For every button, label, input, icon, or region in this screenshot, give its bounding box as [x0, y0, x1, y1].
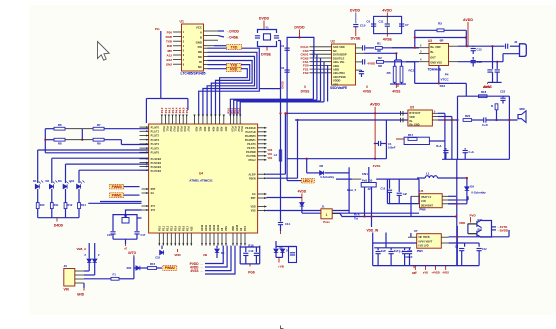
- svg-text:4VTO: 4VTO: [128, 251, 137, 255]
- svg-text:P4: P4: [445, 73, 449, 77]
- svg-text:ExP: ExP: [381, 250, 386, 253]
- wire audio mid line: [438, 119, 458, 121]
- svg-text:P0.2: P0.2: [169, 127, 172, 133]
- capacitor C27: [398, 179, 400, 192]
- svg-text:AIN-/TESE: AIN-/TESE: [333, 75, 346, 79]
- U2 left bus 5th wire: [327, 65, 329, 101]
- zener diode Z2: [94, 243, 96, 259]
- svg-text:VCC: VCC: [196, 26, 203, 30]
- wire rows from U4 left to LED drops: [38, 149, 149, 151]
- capacitor C6: [371, 24, 376, 26]
- svg-text:P3.1: P3.1: [234, 127, 237, 133]
- svg-text:P3.5/T1: P3.5/T1: [247, 147, 256, 150]
- svg-text:Pxxx: Pxxx: [323, 220, 330, 224]
- svg-text:P2.0: P2.0: [244, 225, 247, 231]
- svg-text:Y1: Y1: [265, 26, 269, 30]
- svg-text:NC: NC: [333, 49, 337, 53]
- svg-text:PWM0: PWM0: [112, 185, 122, 189]
- net label PWM1 yellow: [110, 193, 124, 198]
- LED D1: [35, 184, 39, 188]
- svg-text:4VDD: 4VDD: [367, 61, 376, 65]
- svg-text:P0.1: P0.1: [165, 127, 168, 133]
- svg-text:U6: U6: [420, 189, 424, 193]
- capacitor C24 bottom left: [445, 148, 447, 149]
- net label PWM0 yellow: [110, 184, 124, 189]
- svg-text:P2.1: P2.1: [162, 225, 165, 231]
- svg-text:VIN: VIN: [64, 288, 70, 292]
- U5 left pin tick marks: [401, 111, 404, 122]
- svg-text:PG6: PG6: [248, 270, 255, 274]
- svg-text:R20: R20: [465, 114, 471, 118]
- svg-text:P1.0/T0: P1.0/T0: [151, 126, 160, 129]
- svg-text:R6: R6: [58, 123, 62, 127]
- wire 4VDD cap loop: [374, 16, 402, 33]
- U3 left pins: [419, 47, 429, 49]
- diode D5 below U4: [216, 246, 218, 249]
- svg-text:DVDD: DVDD: [350, 9, 361, 13]
- svg-text:P1.2/T2: P1.2/T2: [151, 135, 160, 138]
- svg-text:VDD_IN: VDD_IN: [367, 228, 379, 232]
- svg-text:AD5: AD5: [215, 127, 218, 132]
- diode D10: [280, 249, 284, 253]
- U4 top pin stubs group3: [229, 115, 231, 125]
- svg-text:U7: U7: [414, 229, 418, 233]
- U4 top pin stubs group2: [194, 115, 196, 125]
- svg-text:A15: A15: [190, 226, 193, 231]
- capacitor C25 bottom: [464, 148, 466, 149]
- svg-text:+4VDD: +4VDD: [431, 270, 440, 274]
- svg-text:FS2: FS2: [303, 71, 309, 75]
- svg-text:D2: D2: [46, 179, 50, 183]
- capacitor C28: [377, 248, 379, 251]
- wire DVDD loop: [287, 37, 314, 180]
- svg-text:R+/L: R+/L: [436, 144, 442, 148]
- svg-text:DVSS: DVSS: [281, 81, 285, 88]
- svg-text:AD0: AD0: [195, 127, 198, 132]
- svg-text:4VSS: 4VSS: [442, 270, 449, 274]
- svg-text:VVVV VBVT: VVVV VBVT: [418, 240, 433, 243]
- wire R17 loop to audio verticals: [429, 140, 445, 142]
- U5 right pin wires: [432, 112, 438, 114]
- svg-text:P3.1/TxD: P3.1/TxD: [245, 131, 255, 134]
- svg-text:CN1: CN1: [362, 172, 368, 176]
- svg-text:C12: C12: [477, 48, 483, 52]
- svg-text:P4.4: P4.4: [174, 107, 178, 113]
- svg-text:P1.5/T5: P1.5/T5: [151, 147, 160, 150]
- svg-text:DVSS: DVSS: [301, 89, 310, 93]
- power label DVSS below Y1: [266, 47, 268, 51]
- crystal Y1 symbol: [264, 34, 271, 40]
- capacitor C19: [245, 247, 247, 252]
- wire J3 to right: [84, 278, 111, 280]
- svg-text:AD3: AD3: [207, 127, 210, 132]
- connector J2 plug body: [520, 44, 527, 57]
- svg-text:VIF YDFB: VIF YDFB: [418, 236, 430, 239]
- capacitor C15: [495, 70, 500, 72]
- resistor R7: [93, 127, 104, 130]
- U7 right pins: [441, 236, 448, 238]
- svg-text:B/C: B/C: [478, 228, 483, 232]
- svg-text:VDDD: VDDD: [333, 79, 340, 83]
- svg-text:LVD: LVD: [421, 200, 426, 203]
- svg-text:C1: C1: [388, 142, 392, 146]
- resistor R11: [50, 203, 53, 209]
- svg-text:E+P: E+P: [399, 251, 404, 254]
- svg-text:AD15: AD15: [236, 224, 239, 231]
- svg-text:VSS: VSS: [225, 226, 228, 231]
- crystal Y2 network: [113, 215, 126, 231]
- svg-text:B12: B12: [166, 58, 172, 62]
- svg-text:P3.7/RD: P3.7/RD: [247, 155, 256, 158]
- svg-text:100nF: 100nF: [388, 146, 396, 150]
- svg-text:C18: C18: [155, 256, 160, 260]
- wire Q1 base: [468, 223, 477, 225]
- resistor R18 top: [479, 95, 488, 98]
- wire Y2 caps to common: [112, 234, 114, 239]
- svg-text:100nF: 100nF: [405, 256, 413, 259]
- svg-text:Pin: Pin: [155, 27, 160, 31]
- capacitor CY2: [274, 36, 279, 38]
- IC U7 regulator: [417, 234, 442, 249]
- svg-text:SSD/VadFE: SSD/VadFE: [330, 86, 347, 90]
- svg-text:VB8_A: VB8_A: [77, 247, 88, 251]
- power label 4VTO below Y2: [125, 244, 127, 246]
- wire diode bottom to U6 row: [448, 203, 467, 205]
- svg-text:C6: C6: [366, 20, 370, 24]
- transistor Q2: [477, 230, 482, 238]
- svg-text:C15: C15: [380, 187, 385, 191]
- resistor R15 with PWM2 label: [140, 267, 148, 269]
- resistor R1 0R: [375, 47, 382, 50]
- IC U4 microcontroller AT89C51ED2: [149, 124, 258, 233]
- svg-text:C19: C19: [249, 249, 254, 253]
- wire horizontal lower crossing: [287, 158, 387, 160]
- IC U2 ADC: [332, 44, 356, 85]
- svg-text:R8: R8: [58, 142, 62, 146]
- svg-text:IN-: IN-: [430, 50, 434, 54]
- svg-text:J3: J3: [64, 264, 68, 268]
- wire left bus verticals: [44, 129, 46, 153]
- wire PWM labels to U4: [124, 186, 140, 188]
- net label PWM2 yellow: [163, 266, 177, 271]
- svg-text:R3: R3: [438, 22, 442, 26]
- svg-text:A12: A12: [166, 53, 172, 57]
- svg-text:XTAL2: XTAL2: [248, 159, 256, 162]
- svg-text:U3: U3: [428, 39, 432, 43]
- svg-text:J2: J2: [514, 40, 518, 44]
- svg-text:VDD: VDD: [251, 206, 256, 209]
- svg-text:MIC: MIC: [520, 107, 526, 111]
- power label D4DD below LED rail: [56, 218, 58, 222]
- svg-text:4VDD: 4VDD: [298, 190, 307, 194]
- svg-text:AD12: AD12: [209, 224, 212, 231]
- svg-text:xVB: xVB: [423, 270, 428, 274]
- resistor R20 mid: [463, 119, 472, 122]
- IC U6 regulator: [420, 194, 443, 208]
- svg-text:P0.4: P0.4: [176, 127, 179, 133]
- svg-text:GND VSS: GND VSS: [430, 61, 442, 65]
- LED D3: [63, 184, 67, 188]
- wire audio network loop: [457, 96, 459, 159]
- wire Y2 to U4 XTAL pins: [137, 217, 142, 219]
- wire U4 right pin elbow 2: [297, 120, 299, 178]
- svg-text:R24: R24: [127, 266, 132, 270]
- svg-text:OUT: OUT: [430, 55, 436, 59]
- svg-text:R13: R13: [440, 84, 446, 88]
- capacitor C29: [390, 248, 392, 251]
- wire J1 to right rail: [332, 213, 340, 215]
- svg-text:P3.0/RxD: P3.0/RxD: [245, 127, 256, 130]
- svg-text:P1.3/T3: P1.3/T3: [151, 139, 160, 142]
- svg-text:P4.0: P4.0: [160, 107, 164, 113]
- svg-text:AD1: AD1: [199, 127, 202, 132]
- svg-text:EA: EA: [252, 193, 256, 196]
- diode D6 pair and cap loop right: [275, 241, 277, 248]
- svg-text:PSEN: PSEN: [249, 177, 256, 180]
- capacitor C26: [389, 179, 391, 189]
- svg-text:4VSS: 4VSS: [190, 269, 198, 273]
- wire LED_2 to left bus: [287, 180, 301, 182]
- svg-text:C13: C13: [477, 60, 483, 64]
- svg-text:485: 485: [167, 49, 172, 53]
- svg-text:P3.4/T0: P3.4/T0: [247, 143, 256, 146]
- wire loop with caps PG6: [240, 246, 260, 247]
- wire CN1 long vertical: [348, 167, 350, 213]
- wire rows into U4 lower-left: [100, 201, 142, 203]
- svg-text:P1.6/T6: P1.6/T6: [151, 152, 160, 155]
- svg-text:LTC485/SP3485: LTC485/SP3485: [181, 72, 206, 76]
- svg-text:0-Schottky: 0-Schottky: [471, 191, 486, 195]
- J3 pin wires: [75, 270, 84, 272]
- mouse cursor: [98, 42, 110, 61]
- svg-text:XT2: XT2: [151, 209, 156, 212]
- svg-text:R12: R12: [68, 203, 73, 207]
- resistor R10: [36, 203, 39, 209]
- svg-text:P4.1: P4.1: [164, 107, 168, 113]
- capacitor C35 loop: [289, 247, 297, 263]
- svg-text:RC1: RC1: [409, 69, 415, 73]
- inductor L2 on left rail: [279, 150, 281, 161]
- svg-text:DATA/SDIP: DATA/SDIP: [333, 53, 347, 57]
- svg-text:R14: R14: [81, 203, 86, 207]
- svg-text:P2.6: P2.6: [182, 225, 185, 231]
- wire LED common rail: [37, 209, 39, 218]
- svg-text:U5: U5: [410, 106, 414, 110]
- LED D4: [77, 184, 81, 188]
- wire U4 right pin elbow 1: [284, 113, 286, 174]
- capacitor C32 right of U7: [459, 249, 464, 251]
- svg-text:L2: L2: [274, 153, 278, 157]
- U2 left vertical wire bus to U4 top pins: [312, 51, 314, 100]
- U2 right cap stub: [356, 69, 362, 71]
- wire R2 output drop to audio rail: [414, 62, 416, 84]
- wire stub left edge: [278, 40, 281, 42]
- svg-text:+V: +V: [414, 270, 418, 274]
- wire bottom power rail: [411, 265, 479, 267]
- wire rail x456 vertical: [456, 159, 458, 265]
- svg-text:P2.4: P2.4: [174, 225, 177, 231]
- svg-text:C17: C17: [141, 233, 146, 237]
- svg-text:R18: R18: [481, 90, 487, 94]
- svg-text:P2.7: P2.7: [186, 225, 189, 231]
- wire caps to AVSS below connector: [492, 46, 494, 69]
- resistor R8: [45, 139, 54, 141]
- wire U4 right pin to 4VDD zener node: [267, 197, 302, 199]
- svg-text:P1.1/T1: P1.1/T1: [151, 131, 160, 134]
- power label AVSS: [487, 82, 489, 84]
- svg-text:AD4: AD4: [211, 127, 214, 132]
- svg-text:R2: R2: [378, 56, 382, 60]
- svg-text:4VSS: 4VSS: [363, 89, 371, 93]
- capacitor C12 on AVDD rail: [472, 45, 474, 48]
- svg-text:C0.1: C0.1: [285, 222, 291, 226]
- svg-text:D6: D6: [320, 164, 324, 168]
- power label DVSS below U2 right: [395, 83, 397, 88]
- U4 right pin stubs: [258, 127, 267, 129]
- svg-text:P0.5: P0.5: [180, 127, 183, 133]
- wire zener row to loop: [302, 212, 419, 214]
- svg-text:LVD LVD: LVD LVD: [418, 245, 429, 248]
- svg-text:B/C: B/C: [478, 218, 483, 222]
- net label LED_2 yellow: [301, 179, 314, 183]
- zener diode Z1: [88, 243, 90, 259]
- wire bus row into U4: [45, 152, 148, 154]
- capacitor C31 left of U7: [409, 248, 411, 251]
- power label +VB below diodes: [278, 257, 280, 262]
- capacitor C22 top right: [502, 96, 504, 97]
- svg-text:P4.6: P4.6: [182, 107, 186, 113]
- power rail stubs and labels: [414, 266, 416, 270]
- svg-text:P3.3/INT1: P3.3/INT1: [245, 139, 256, 142]
- diode D7 schottky horizontal: [306, 158, 308, 160]
- wire into U3 from left: [392, 47, 419, 49]
- svg-text:C+/L: C+/L: [469, 150, 475, 154]
- capacitor C8: [285, 70, 290, 72]
- svg-text:P0.6: P0.6: [183, 127, 186, 133]
- svg-text:VD1: VD1: [268, 153, 273, 156]
- U1 right pin wires: [204, 30, 219, 32]
- artifact mark bottom centre: [281, 326, 284, 329]
- crystal Y1 network box: [258, 30, 277, 34]
- svg-text:1: 1: [326, 213, 328, 217]
- capacitor C11: [385, 24, 390, 26]
- svg-text:AD13: AD13: [213, 224, 216, 231]
- wire transistor outputs loop: [482, 221, 492, 238]
- svg-text:IN+ GND: IN+ GND: [409, 124, 419, 127]
- svg-text:GN2: GN2: [166, 63, 173, 67]
- svg-text:Bluz_5: Bluz_5: [347, 188, 356, 192]
- svg-text:C16: C16: [107, 233, 112, 237]
- wire from U1 area down-left: [160, 31, 162, 99]
- wire corner into left bus vertical: [259, 88, 280, 90]
- svg-text:R: R: [491, 104, 493, 108]
- svg-text:P1.5/CEX: P1.5/CEX: [151, 162, 162, 165]
- svg-text:DVSE: DVSE: [351, 37, 361, 41]
- svg-text:P3.2/INT0: P3.2/INT0: [245, 135, 256, 138]
- svg-text:P2.0: P2.0: [158, 225, 161, 231]
- wire bus from U1 right pins staircase to U4 top pins: [204, 47, 208, 49]
- power label PG6: [249, 264, 251, 267]
- LED D2: [49, 184, 53, 188]
- svg-text:XT1: XT1: [151, 205, 156, 208]
- svg-text:TXD: TXD: [166, 40, 173, 44]
- capacitor C10: [355, 13, 357, 24]
- svg-text:GND: GND: [196, 40, 202, 44]
- resistor R12: [64, 203, 67, 209]
- U2 right pin wire long: [356, 52, 365, 54]
- U4 left pin stubs lower: [140, 158, 149, 160]
- wire jog row1 to row2: [81, 129, 83, 140]
- svg-text:C7: C7: [405, 23, 409, 27]
- svg-text:B: B: [200, 35, 202, 39]
- net label DVDD right of U1: [218, 30, 224, 32]
- wire VDD_IN feed to caps: [385, 233, 387, 248]
- svg-text:RE: RE: [198, 50, 202, 54]
- svg-text:P2.2: P2.2: [166, 225, 169, 231]
- power label GND below J3: [83, 283, 85, 288]
- svg-text:PWM1: PWM1: [112, 193, 122, 197]
- svg-text:P1.7/CEX: P1.7/CEX: [151, 170, 162, 173]
- svg-text:R16: R16: [248, 244, 254, 248]
- svg-text:AIN2: AIN2: [333, 68, 339, 72]
- svg-text:U2: U2: [331, 40, 335, 44]
- resistor R6: [45, 128, 54, 130]
- svg-text:AVDD: AVDD: [463, 18, 473, 22]
- svg-text:RXD: RXD: [166, 35, 173, 39]
- svg-text:PWM2: PWM2: [165, 266, 175, 270]
- svg-text:C12: C12: [482, 248, 487, 251]
- svg-text:TXD: TXD: [231, 45, 238, 49]
- svg-text:DI: DI: [199, 60, 202, 64]
- svg-text:AD11: AD11: [205, 224, 208, 231]
- svg-text:R15: R15: [150, 262, 156, 266]
- U7 left pins: [408, 236, 417, 238]
- svg-text:AD7: AD7: [224, 127, 227, 132]
- capacitor C18 below U4: [160, 250, 164, 254]
- svg-text:DE: DE: [198, 55, 202, 59]
- svg-text:LED 2: LED 2: [303, 179, 313, 183]
- svg-text:RO: RO: [198, 45, 203, 49]
- power label 4VSS: [386, 34, 388, 37]
- net label 485_DE yellow: [204, 45, 215, 47]
- svg-text:SCK VDD: SCK VDD: [333, 45, 345, 49]
- svg-text:F1: F1: [113, 272, 117, 276]
- wire diode bottoms rail: [275, 253, 277, 258]
- svg-text:GND: GND: [77, 292, 85, 296]
- wire J3 pin1 to VB8_A: [84, 270, 89, 272]
- diode D9 schottky right: [466, 178, 468, 187]
- svg-text:VTCC: VTCC: [441, 78, 450, 82]
- svg-text:VSS: VSS: [251, 210, 256, 213]
- U1 left pin wires: [173, 31, 182, 33]
- svg-text:DVDD: DVDD: [259, 17, 270, 21]
- net labels RXD TXD yellow pair: [227, 63, 242, 67]
- capacitor C13: [472, 57, 474, 60]
- wire U5 outputs down to bottom rail: [444, 113, 446, 159]
- U4 left pin stubs: [140, 126, 149, 128]
- resistor R9: [93, 138, 104, 141]
- capacitor C7: [399, 24, 404, 26]
- capacitor C23 mid: [484, 117, 486, 122]
- svg-text:D3: D3: [58, 179, 62, 183]
- svg-text:PVD: PVD: [470, 213, 477, 217]
- svg-text:P0.3: P0.3: [173, 127, 176, 133]
- svg-text:D9: D9: [470, 185, 474, 189]
- svg-text:VBAT LV: VBAT LV: [421, 196, 432, 199]
- wire feed to U4 top-left pins: [161, 98, 188, 100]
- svg-text:R7: R7: [97, 123, 101, 127]
- svg-text:AVSS: AVSS: [483, 85, 491, 89]
